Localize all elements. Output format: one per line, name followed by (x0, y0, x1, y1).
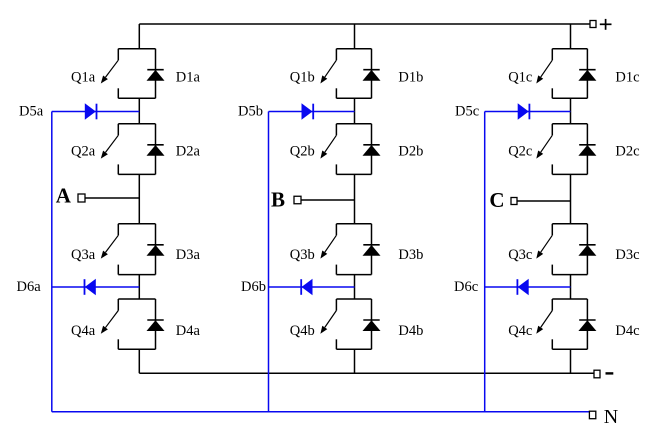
svg-text:D6c: D6c (454, 279, 478, 295)
svg-text:N: N (604, 406, 618, 428)
svg-text:D3b: D3b (398, 247, 423, 263)
svg-text:D5a: D5a (19, 103, 44, 119)
svg-text:Q2b: Q2b (290, 144, 315, 160)
svg-text:Q3b: Q3b (290, 247, 315, 263)
svg-text:C: C (489, 188, 504, 212)
svg-text:A: A (56, 183, 72, 207)
svg-text:Q2c: Q2c (508, 144, 532, 160)
svg-text:Q1a: Q1a (71, 70, 96, 86)
svg-text:D2c: D2c (615, 144, 639, 160)
svg-text:D1a: D1a (176, 70, 201, 86)
svg-text:D6a: D6a (17, 279, 42, 295)
svg-text:D2b: D2b (398, 144, 423, 160)
svg-text:B: B (271, 187, 285, 211)
svg-text:D2a: D2a (176, 144, 201, 160)
svg-text:D6b: D6b (241, 279, 266, 295)
svg-text:D4a: D4a (176, 323, 201, 339)
svg-text:Q3c: Q3c (508, 247, 532, 263)
svg-text:Q3a: Q3a (71, 247, 96, 263)
svg-text:D4c: D4c (615, 323, 639, 339)
svg-text:Q4a: Q4a (71, 323, 96, 339)
svg-text:D3c: D3c (615, 247, 639, 263)
svg-text:Q4c: Q4c (508, 323, 532, 339)
svg-text:Q1b: Q1b (290, 70, 315, 86)
svg-text:D4b: D4b (398, 323, 423, 339)
svg-text:D3a: D3a (176, 247, 201, 263)
svg-text:Q1c: Q1c (508, 70, 532, 86)
svg-text:D5b: D5b (238, 103, 263, 119)
svg-text:D1b: D1b (398, 70, 423, 86)
svg-text:D1c: D1c (615, 70, 639, 86)
svg-text:D5c: D5c (455, 103, 479, 119)
svg-text:Q2a: Q2a (71, 144, 96, 160)
svg-text:Q4b: Q4b (290, 323, 315, 339)
